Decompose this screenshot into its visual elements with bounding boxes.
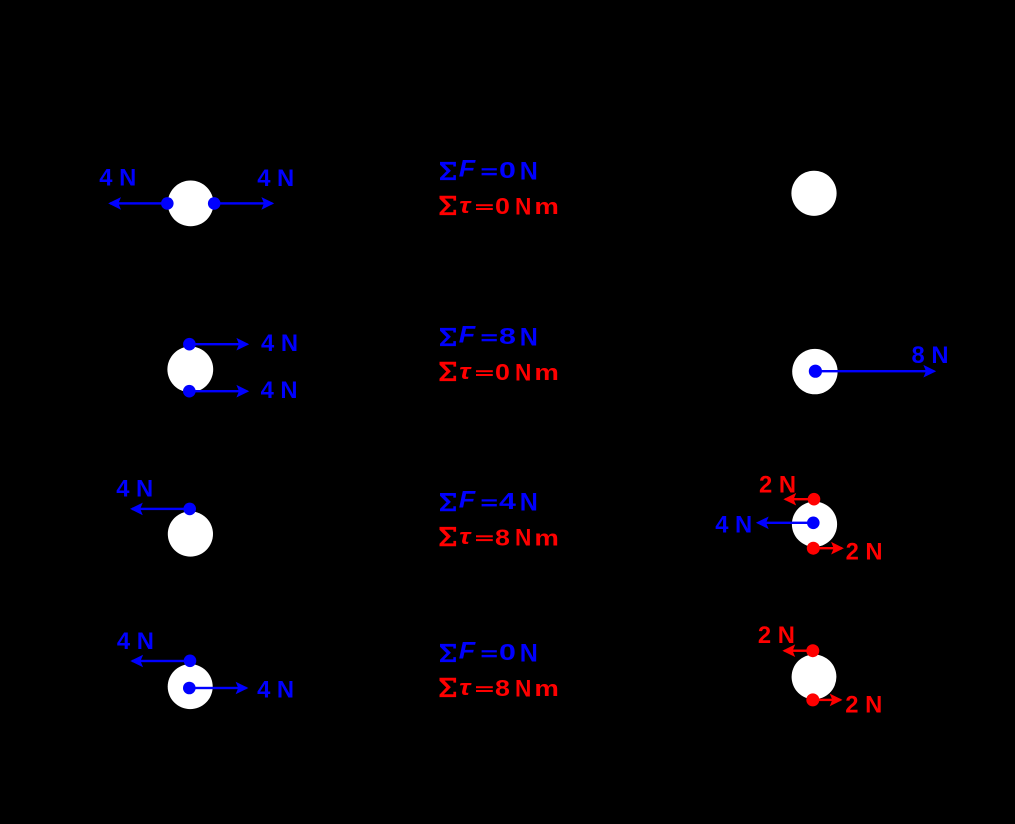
svg-text:0: 0 xyxy=(495,359,510,385)
svg-text:τ: τ xyxy=(459,675,472,700)
application dot center (row4-left) xyxy=(183,682,196,695)
svg-text:4 N: 4 N xyxy=(715,512,752,539)
svg-text:8: 8 xyxy=(495,675,510,701)
svg-text:m: m xyxy=(534,360,559,385)
formula sum F = 0 N (row1) xyxy=(440,156,538,186)
formula sum F = 8 N (row2) xyxy=(440,322,538,352)
application dot bottom (row2-left) xyxy=(183,385,196,398)
force arrow 4N bottom (row2-left) xyxy=(189,385,249,398)
svg-text:N: N xyxy=(515,675,531,702)
svg-text:N: N xyxy=(520,157,538,185)
svg-text:N: N xyxy=(520,639,538,667)
svg-text:4 N: 4 N xyxy=(99,165,136,192)
formula sum F = 4 N (row3) xyxy=(440,487,538,517)
svg-text:4 N: 4 N xyxy=(261,377,298,404)
application dot center (row2-right) xyxy=(809,365,822,378)
force arrow 8N (row2-right) xyxy=(815,365,936,378)
application dot red bottom (row4-right) xyxy=(806,693,819,706)
svg-text:8: 8 xyxy=(495,524,510,550)
force arrow 4N top (row2-left) xyxy=(189,338,249,351)
force arrow 4N center (row3-right) xyxy=(756,517,813,530)
svg-text:4 N: 4 N xyxy=(257,677,294,704)
disk row4-right xyxy=(792,655,837,700)
force arrow 2N top-left (row4-right) xyxy=(782,644,812,657)
force arrow 2N top-left (row3-right) xyxy=(783,493,814,506)
disk row3-left xyxy=(168,511,213,556)
application dot left (row1-left) xyxy=(161,197,174,210)
svg-text:0: 0 xyxy=(495,193,510,219)
svg-text:2 N: 2 N xyxy=(759,471,796,498)
svg-text:F: F xyxy=(459,487,477,514)
application dot red top (row4-right) xyxy=(806,644,819,657)
svg-text:F: F xyxy=(459,156,477,183)
svg-text:m: m xyxy=(534,525,559,550)
svg-text:4 N: 4 N xyxy=(117,628,154,655)
svg-text:N: N xyxy=(515,525,531,552)
application dot top (row3-left) xyxy=(183,503,196,516)
application dot red bottom (row3-right) xyxy=(807,542,820,555)
formula sum tau = 0 N m (row2) xyxy=(440,359,559,386)
application dot top (row4-left) xyxy=(184,655,197,668)
disk row4-left xyxy=(168,664,213,709)
force arrow 4N (row3-left) xyxy=(130,503,190,516)
svg-text:0: 0 xyxy=(499,157,516,183)
formula sum F = 0 N (row4) xyxy=(440,638,538,668)
disk row1-left xyxy=(168,181,214,227)
force arrow 4N right (row1-left) xyxy=(214,197,274,210)
svg-text:τ: τ xyxy=(459,524,472,549)
force arrow 2N bottom-right (row4-right) xyxy=(813,694,843,707)
svg-text:m: m xyxy=(534,194,559,219)
force arrow 4N left (row1-left) xyxy=(108,197,167,210)
force arrow 4N center-right (row4-left) xyxy=(189,682,248,695)
svg-text:4 N: 4 N xyxy=(257,165,294,192)
svg-text:2 N: 2 N xyxy=(846,539,883,566)
formula sum tau = 0 N m (row1) xyxy=(440,193,559,220)
application dot blue center (row3-right) xyxy=(807,517,820,530)
disk row1-right xyxy=(791,171,836,216)
svg-text:4 N: 4 N xyxy=(261,330,298,357)
force arrow 4N top-left (row4-left) xyxy=(130,655,190,668)
disk row2-left xyxy=(167,347,213,393)
svg-text:τ: τ xyxy=(459,193,472,218)
svg-text:N: N xyxy=(515,193,531,220)
svg-text:4 N: 4 N xyxy=(116,476,153,503)
svg-text:F: F xyxy=(459,322,477,349)
svg-text:F: F xyxy=(459,638,477,665)
disk row3-right xyxy=(792,502,837,547)
force arrow 2N bottom-right (row3-right) xyxy=(813,542,844,555)
svg-text:8 N: 8 N xyxy=(912,342,949,369)
svg-text:N: N xyxy=(515,359,531,386)
disk row2-right xyxy=(792,349,837,394)
application dot red top (row3-right) xyxy=(808,493,821,506)
svg-text:8: 8 xyxy=(499,323,516,349)
svg-text:τ: τ xyxy=(459,359,472,384)
svg-text:0: 0 xyxy=(499,639,516,665)
svg-text:m: m xyxy=(534,676,559,701)
svg-text:4: 4 xyxy=(499,488,516,514)
svg-text:2 N: 2 N xyxy=(758,622,795,649)
svg-text:N: N xyxy=(520,488,538,516)
application dot top (row2-left) xyxy=(183,338,196,351)
svg-text:N: N xyxy=(520,323,538,351)
formula sum tau = 8 N m (row4) xyxy=(440,675,559,702)
svg-text:2 N: 2 N xyxy=(845,691,882,718)
application dot right (row1-left) xyxy=(208,197,221,210)
formula sum tau = 8 N m (row3) xyxy=(440,524,559,551)
